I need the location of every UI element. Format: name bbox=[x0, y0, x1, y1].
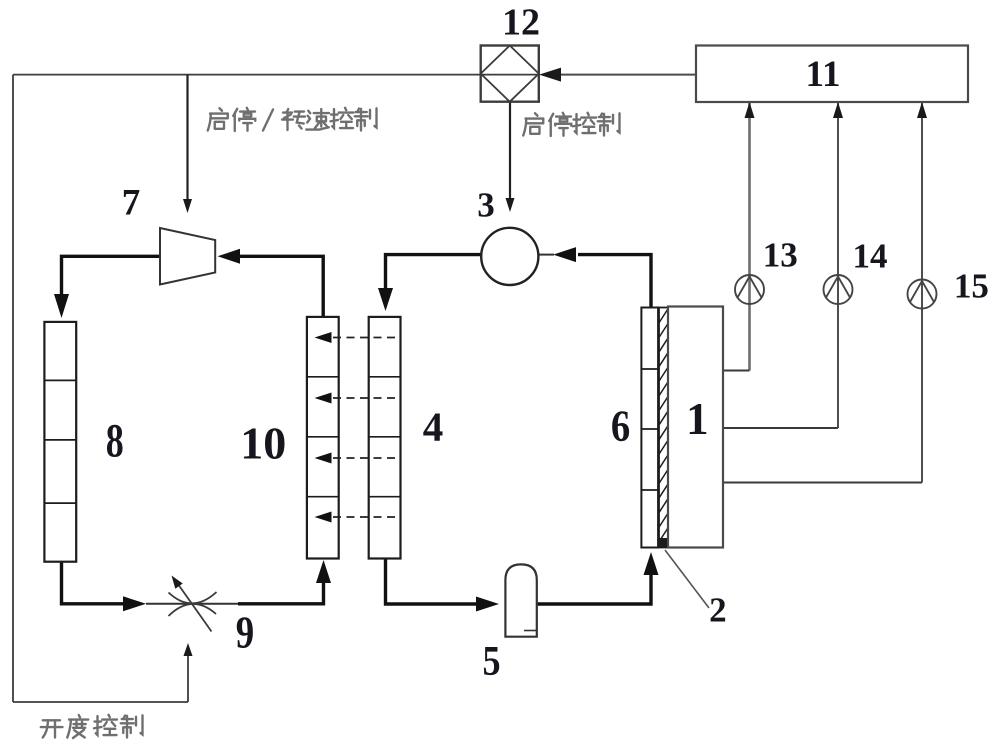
pipe: evaporator 10 top to compressor 7 bbox=[238, 256, 323, 317]
wire: control loop bottom horizontal bbox=[13, 701, 188, 703]
wire: controller 11 to relay 12 bbox=[560, 74, 696, 76]
svg-text:2: 2 bbox=[709, 591, 727, 630]
svg-text:5: 5 bbox=[482, 639, 500, 685]
wire: sensor 13 riser to controller 11 bbox=[748, 103, 751, 371]
reservoir 5 bbox=[505, 564, 536, 636]
evaporator 10 bbox=[307, 317, 339, 559]
arrow into compressor 7 control bbox=[183, 199, 192, 213]
wire: control loop left vertical bbox=[12, 75, 14, 702]
pipe: radiator 4 bottom to reservoir 5 bbox=[386, 559, 478, 605]
arrow into pump 3 inlet bbox=[553, 247, 576, 262]
sensor 14 bbox=[824, 275, 853, 304]
heat transfer dashed arrow 2 bbox=[315, 393, 397, 404]
svg-text:9: 9 bbox=[236, 607, 254, 657]
condenser 8 bbox=[44, 322, 76, 562]
heat transfer dashed arrow 3 bbox=[315, 453, 397, 464]
wire: sensor 14 stub to tank 1 bbox=[723, 427, 838, 429]
arrow sensor 15 into controller 11 bbox=[917, 102, 927, 118]
arrow sensor 14 into controller 11 bbox=[833, 102, 843, 118]
controller box 11 bbox=[696, 46, 968, 103]
arrow into radiator 4 top bbox=[378, 288, 393, 311]
annotation: start-stop / speed control text bbox=[208, 108, 377, 131]
expansion valve 9 bbox=[169, 582, 217, 632]
arrow into pump 3 control bbox=[506, 198, 515, 212]
compressor 7 bbox=[160, 228, 215, 285]
wire: sensor 13 stub to tank 1 bbox=[723, 370, 750, 372]
svg-text:13: 13 bbox=[763, 236, 798, 275]
wire: pump 3 inlet thin stub bbox=[538, 254, 554, 256]
pipe: pump 3 outlet to radiator 4 bbox=[386, 255, 482, 288]
wire: valve control riser bbox=[187, 655, 189, 702]
wire: sensor 14 riser to controller 11 bbox=[837, 103, 839, 428]
svg-text:7: 7 bbox=[122, 183, 141, 224]
arrow into cold plate 6 bottom bbox=[644, 552, 659, 575]
relay 12 square bbox=[481, 46, 539, 102]
heat transfer dashed arrow 4 bbox=[315, 512, 397, 523]
arrow into reservoir 5 bbox=[476, 597, 499, 612]
arrow into valve 9 control bbox=[184, 643, 193, 656]
pointer line for label 2 bbox=[665, 550, 709, 608]
relay 12 diamond bbox=[481, 46, 539, 102]
arrow into compressor 7 suction bbox=[218, 249, 240, 264]
arrow into relay 12 bbox=[539, 68, 561, 82]
svg-text:11: 11 bbox=[806, 54, 841, 95]
wire: relay 12 drop to pump 3 bbox=[509, 102, 511, 199]
pump 3 bbox=[481, 228, 538, 285]
cold plate 6 bbox=[641, 308, 658, 548]
wire: sensor 15 riser to controller 11 bbox=[921, 103, 923, 483]
wire: compressor control drop bbox=[186, 75, 188, 200]
sensor 13 bbox=[735, 275, 764, 304]
svg-text:4: 4 bbox=[423, 404, 444, 450]
heat transfer dashed arrow 1 from radiator 4 to evaporator 10 bbox=[315, 332, 397, 343]
svg-text:10: 10 bbox=[240, 418, 286, 469]
wire through relay 12 bbox=[481, 74, 539, 76]
svg-text:8: 8 bbox=[106, 415, 124, 468]
sensor 15 bbox=[908, 280, 937, 309]
annotation: opening control text bbox=[41, 715, 143, 738]
svg-text:1: 1 bbox=[686, 394, 709, 444]
svg-text:3: 3 bbox=[477, 186, 495, 225]
radiator 4 bbox=[369, 317, 401, 559]
arrow into condenser 8 top bbox=[54, 294, 69, 318]
pipe: reservoir 5 to cold plate 6 bbox=[537, 574, 651, 604]
wire: pipe through valve 9 bbox=[146, 603, 240, 605]
svg-text:15: 15 bbox=[954, 267, 989, 306]
arrow sensor 13 into controller 11 bbox=[745, 102, 755, 118]
arrow on valve 9 stem bbox=[172, 576, 183, 589]
svg-text:6: 6 bbox=[611, 401, 630, 450]
pipe: condenser 8 outlet down to valve 9 bbox=[62, 562, 125, 604]
thermal pad 2 hatched strip bbox=[659, 308, 668, 548]
pipe: condenser 8 inlet from compressor 7 bbox=[62, 256, 161, 295]
svg-text:14: 14 bbox=[853, 237, 888, 276]
wire: control loop top horizontal from node to ECU line bbox=[13, 74, 538, 76]
svg-text:12: 12 bbox=[502, 2, 540, 44]
tank 1 bbox=[668, 307, 723, 548]
annotation: start-stop control text bbox=[523, 113, 619, 136]
arrow toward valve 9 bbox=[123, 596, 146, 611]
reservoir 5 inner lip bbox=[524, 630, 536, 632]
pipe: valve 9 to evaporator 10 bottom bbox=[238, 582, 324, 604]
pipe: cold plate 6 top to pump 3 bbox=[578, 255, 651, 308]
wire: sensor 15 stub to tank 1 bbox=[723, 482, 922, 484]
arrow into evaporator 10 bottom bbox=[316, 560, 331, 583]
